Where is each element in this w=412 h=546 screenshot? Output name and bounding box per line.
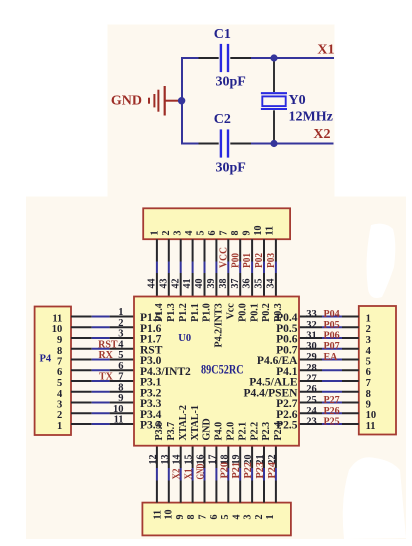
svg-text:9: 9 [366,400,371,411]
svg-text:13: 13 [160,455,171,465]
svg-text:6: 6 [209,515,220,520]
svg-text:X1: X1 [317,42,334,57]
svg-text:9: 9 [242,231,253,236]
svg-text:3: 3 [243,515,254,520]
wire [251,143,334,145]
svg-text:44: 44 [147,279,158,289]
svg-text:P4.2/INT3: P4.2/INT3 [214,303,225,347]
svg-text:P06: P06 [324,331,340,342]
capacitor C2 [199,129,252,157]
svg-text:C1: C1 [214,27,231,42]
svg-text:7: 7 [118,372,123,383]
svg-text:4: 4 [184,231,195,236]
svg-text:17: 17 [207,455,218,465]
svg-text:8: 8 [57,346,62,357]
svg-text:P03: P03 [266,253,277,268]
svg-text:10: 10 [253,226,264,236]
wire [251,57,334,59]
svg-text:P1.2: P1.2 [178,303,189,322]
svg-text:P04: P04 [324,309,340,320]
svg-text:1: 1 [118,307,123,318]
wire [181,143,199,145]
svg-text:24: 24 [306,406,317,417]
svg-text:8: 8 [118,382,123,393]
svg-text:37: 37 [230,279,241,289]
wires top bus [157,239,276,296]
svg-text:X1: X1 [184,469,195,480]
net labels left (RST,RX,TX) [98,339,118,382]
svg-text:3: 3 [366,335,371,346]
svg-text:P2.5: P2.5 [276,420,298,432]
svg-text:10: 10 [113,404,124,415]
svg-text:GND: GND [196,464,207,480]
svg-text:P07: P07 [324,341,340,352]
svg-text:26: 26 [306,384,317,395]
pin numbers top (44-34) [147,279,277,289]
svg-text:P00: P00 [230,253,241,268]
svg-text:11: 11 [366,421,376,432]
svg-text:16: 16 [196,455,207,465]
connector J-bottom [142,503,291,536]
svg-text:10: 10 [52,324,63,335]
svg-text:4: 4 [231,515,242,520]
svg-text:28: 28 [306,363,317,374]
svg-text:11: 11 [265,226,276,235]
pin numbers bottom (12-22) [148,455,278,465]
svg-text:2: 2 [118,318,123,329]
svg-text:1: 1 [265,515,276,520]
svg-text:EA: EA [324,352,339,363]
net labels right (P04-P07,EA,P27-P25) [324,309,340,428]
svg-text:RST: RST [98,339,118,350]
svg-text:5: 5 [196,231,207,236]
net labels bottom (X2,X1,GND,P20-P24) [172,462,278,480]
svg-text:1: 1 [150,231,161,236]
net labels top (VCC,P00-P03) [218,247,277,268]
svg-text:33: 33 [306,309,317,320]
connector J-right [359,306,396,435]
svg-text:P0.1: P0.1 [249,303,260,322]
svg-text:3: 3 [118,329,123,340]
svg-text:Vcc: Vcc [226,303,237,320]
svg-text:7: 7 [198,515,209,520]
svg-text:7: 7 [219,231,230,236]
svg-text:P3.5: P3.5 [140,420,162,432]
svg-text:P1.1: P1.1 [190,303,201,322]
svg-text:2: 2 [254,515,265,520]
svg-text:89C52RC: 89C52RC [201,361,244,376]
svg-text:40: 40 [194,279,205,289]
svg-text:XTAL-2: XTAL-2 [178,405,189,440]
svg-text:30pF: 30pF [216,75,246,90]
junction node X1 [270,54,277,61]
IC U0 89C52RC [134,297,299,446]
svg-text:6: 6 [57,367,62,378]
svg-text:25: 25 [306,395,317,406]
svg-text:23: 23 [306,417,317,428]
svg-text:P2.3: P2.3 [261,422,272,441]
wires right bus [299,317,359,425]
svg-text:2: 2 [57,410,62,421]
svg-text:11: 11 [152,510,163,519]
junction node X2 [270,140,277,147]
svg-text:31: 31 [306,331,317,342]
svg-text:9: 9 [118,393,123,404]
svg-text:P27: P27 [324,395,340,406]
svg-text:TX: TX [99,372,114,383]
svg-text:9: 9 [175,515,186,520]
svg-text:C2: C2 [214,112,231,127]
svg-text:38: 38 [218,279,229,289]
connector J-top [143,208,290,239]
svg-text:Y0: Y0 [289,93,306,108]
svg-text:4: 4 [118,339,124,350]
svg-text:XTAL-1: XTAL-1 [190,405,201,440]
svg-text:GND: GND [111,94,142,109]
pin numbers right (33-23) [306,309,317,428]
svg-text:P23: P23 [255,462,266,479]
svg-text:5: 5 [220,515,231,520]
svg-text:10: 10 [164,510,175,520]
svg-text:43: 43 [158,279,169,289]
svg-text:X2: X2 [172,469,183,480]
svg-text:RX: RX [98,350,113,361]
svg-text:6: 6 [207,231,218,236]
svg-text:3: 3 [173,231,184,236]
svg-text:P05: P05 [324,320,340,331]
crystal Y0 [261,58,287,144]
svg-text:P24: P24 [267,462,278,479]
svg-text:VCC: VCC [218,247,229,268]
svg-text:4: 4 [366,346,372,357]
svg-text:42: 42 [170,279,181,289]
svg-text:30: 30 [306,341,317,352]
svg-text:P4: P4 [40,354,52,365]
svg-text:P20: P20 [219,462,230,479]
ground GND [149,86,179,116]
svg-text:P3.7: P3.7 [166,422,177,441]
svg-text:P25: P25 [324,417,340,428]
svg-text:30pF: 30pF [216,161,246,176]
connector P4 (left) [35,307,71,436]
svg-text:U0: U0 [178,333,191,344]
svg-text:11: 11 [114,415,124,426]
svg-text:P0.2: P0.2 [261,303,272,322]
svg-text:P2.2: P2.2 [249,422,260,441]
svg-text:11: 11 [52,314,62,325]
svg-text:P1.0: P1.0 [202,303,213,322]
svg-text:7: 7 [57,357,62,368]
svg-text:P2.0: P2.0 [226,422,237,441]
svg-text:8: 8 [186,515,197,520]
svg-text:P22: P22 [243,462,254,479]
svg-text:6: 6 [118,361,123,372]
svg-text:P02: P02 [254,253,265,268]
svg-text:X2: X2 [313,127,330,142]
svg-text:5: 5 [57,378,62,389]
svg-text:P1.3: P1.3 [166,303,177,322]
svg-text:P4.0: P4.0 [214,422,225,441]
wires bottom bus [157,446,276,503]
svg-text:6: 6 [366,367,371,378]
pin numbers left (1-11) [113,307,124,426]
svg-text:2: 2 [161,231,172,236]
svg-text:4: 4 [57,389,63,400]
svg-text:41: 41 [182,279,193,289]
svg-text:32: 32 [306,320,317,331]
wire [181,57,199,59]
svg-text:39: 39 [206,279,217,289]
svg-text:34: 34 [266,279,277,289]
svg-text:15: 15 [184,455,195,465]
wire [181,57,183,144]
svg-text:P0.0: P0.0 [237,303,248,322]
svg-text:5: 5 [366,357,371,368]
svg-text:12: 12 [148,455,159,465]
svg-text:P26: P26 [324,406,340,417]
svg-text:8: 8 [230,231,241,236]
svg-text:5: 5 [118,350,123,361]
svg-text:P2.1: P2.1 [237,422,248,441]
svg-text:P01: P01 [242,253,253,268]
wires left bus [71,317,134,425]
svg-text:14: 14 [172,455,183,465]
svg-text:10: 10 [366,410,377,421]
svg-text:2: 2 [366,324,371,335]
svg-text:1: 1 [57,421,62,432]
svg-text:1: 1 [366,314,371,325]
svg-text:GND: GND [202,418,213,440]
svg-text:9: 9 [57,335,62,346]
svg-text:8: 8 [366,389,371,400]
svg-text:12MHz: 12MHz [289,110,333,125]
svg-text:29: 29 [306,352,317,363]
svg-text:27: 27 [306,374,317,385]
capacitor C1 [199,44,252,72]
junction GND [178,97,185,104]
svg-text:36: 36 [242,279,253,289]
svg-text:35: 35 [254,279,265,289]
svg-text:7: 7 [366,378,371,389]
svg-text:P21: P21 [231,462,242,479]
svg-text:3: 3 [57,400,62,411]
